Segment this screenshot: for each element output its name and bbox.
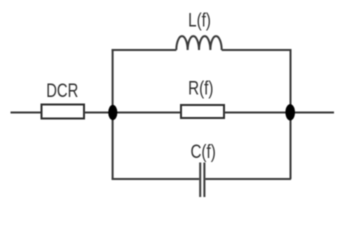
svg-text:C(f): C(f): [190, 140, 215, 162]
wire right lead: [290, 112, 334, 114]
wire top right: [222, 49, 291, 51]
svg-text:R(f): R(f): [188, 77, 213, 99]
wire DCR to node A: [84, 112, 113, 114]
resistor DCR: [42, 105, 85, 119]
svg-text:L(f): L(f): [188, 9, 211, 31]
node B junction dot: [285, 104, 295, 120]
wire left lead: [11, 112, 42, 114]
inductor L(f): [176, 36, 221, 50]
wire node A to R(f): [113, 112, 181, 114]
wire top left: [112, 49, 177, 51]
wire bottom left: [112, 178, 200, 180]
node A junction dot: [108, 105, 117, 120]
wire R(f) to node B: [224, 112, 290, 114]
capacitor C(f): [200, 163, 204, 198]
svg-text:DCR: DCR: [46, 80, 78, 101]
wire right branch vertical: [290, 49, 292, 179]
wire left branch vertical: [112, 49, 114, 179]
resistor R(f): [181, 105, 224, 118]
wire bottom right: [205, 178, 291, 180]
